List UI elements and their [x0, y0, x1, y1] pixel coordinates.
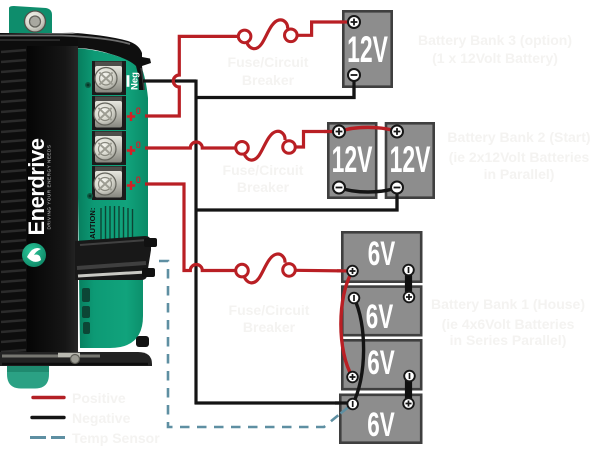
- charger mounting tab (top): [9, 6, 52, 33]
- terminal -: [348, 69, 360, 81]
- pcb connector slots (lower green): [82, 288, 90, 334]
- positive wire 2 (to parallel 12V bank), hops over bus: [145, 142, 236, 148]
- negative branch to battery bank 2: [195, 192, 398, 210]
- svg-text:Neg: Neg: [129, 72, 140, 90]
- positive wire tail over battery edge: [340, 20, 354, 23]
- batt3 terminal + (left): [347, 372, 358, 383]
- circuit breaker CB1 wave: [244, 254, 285, 283]
- charger black case body and top band: [0, 33, 78, 357]
- batt4 terminal + (right): [403, 398, 414, 409]
- batt4 terminal - (left): [347, 399, 358, 410]
- series link bar 3-4 (right): [405, 372, 412, 407]
- svg-text:6V: 6V: [368, 235, 396, 273]
- Enerdrive brand text (rotated): [24, 138, 52, 235]
- black parallel jumper (batt2- to batt4-): [353, 298, 364, 404]
- black parallel link (- to -): [339, 188, 397, 193]
- svg-text:Breaker: Breaker: [243, 319, 296, 335]
- svg-text:Battery Bank 1 (House): Battery Bank 1 (House): [431, 296, 585, 312]
- batt1 terminal - (right): [403, 265, 414, 276]
- terminal block 1 (Neg): [92, 61, 126, 95]
- charger bottom green foot: [7, 366, 49, 389]
- svg-text:Breaker: Breaker: [237, 179, 290, 195]
- terminal R+: [391, 126, 403, 138]
- positive wire 1 (to top 12V battery), hops over black wire: [145, 36, 238, 116]
- svg-text:6V: 6V: [367, 406, 395, 444]
- svg-text:Breaker: Breaker: [242, 72, 295, 88]
- circuit breaker CB3 left circle: [238, 30, 251, 43]
- terminal L-: [333, 182, 345, 194]
- legend positive wire: [33, 396, 64, 399]
- label - Neg: [127, 75, 130, 87]
- green bottom-right corner tab: [136, 336, 149, 347]
- pcb standoff holes: [85, 82, 91, 88]
- heatsink fins: [1, 50, 26, 352]
- legend temp sensor wire: [30, 436, 65, 439]
- svg-text:12V: 12V: [390, 138, 431, 180]
- positive wire 3 (to 6V bank), hops over bus: [145, 184, 236, 271]
- svg-text:12V: 12V: [347, 28, 388, 70]
- caution label on panel: [88, 208, 97, 245]
- svg-text:Fuse/Circuit: Fuse/Circuit: [228, 54, 309, 70]
- batt1 terminal + (left): [347, 266, 358, 277]
- terminal block 2 (+1): [92, 96, 126, 130]
- terminal block 3 (+2): [92, 131, 126, 165]
- circuit breaker CB1 left circle: [236, 264, 249, 277]
- battery 6V #4: [340, 395, 421, 444]
- case top-right band: [62, 32, 151, 90]
- positive wire tail over battery 1 edge: [337, 269, 353, 272]
- batt3 terminal - (right): [404, 371, 415, 382]
- positive wire 1 tail into battery: [297, 22, 354, 35]
- svg-text:CAUTION:: CAUTION:: [88, 208, 97, 245]
- svg-text:in Series Parallel): in Series Parallel): [450, 332, 567, 348]
- svg-text:in Parallel): in Parallel): [484, 166, 555, 182]
- terminal L+: [333, 126, 345, 138]
- cable clamp bar: [75, 236, 157, 280]
- negative bus (vertical): [194, 80, 197, 405]
- svg-text:(1 x 12Volt Battery): (1 x 12Volt Battery): [432, 50, 558, 66]
- negative wire tail over right battery edge: [395, 188, 398, 212]
- label +2: [127, 146, 135, 155]
- circuit breaker CB2 right circle: [283, 141, 296, 154]
- battery 12V (bank 3): [343, 11, 391, 86]
- negative wire tail over battery edge: [352, 78, 355, 99]
- case top highlight: [0, 36, 130, 45]
- svg-text:DRIVING YOUR ENERGY NEEDS: DRIVING YOUR ENERGY NEEDS: [47, 144, 52, 229]
- svg-text:Negative: Negative: [72, 410, 131, 426]
- circuit breaker CB2 wave: [244, 131, 285, 160]
- svg-text:Temp Sensor: Temp Sensor: [72, 430, 160, 446]
- battery 6V #1: [342, 232, 421, 281]
- svg-text:Fuse/Circuit: Fuse/Circuit: [223, 162, 304, 178]
- negative branch to battery bank 3 (top 12V): [195, 80, 355, 98]
- svg-text:6V: 6V: [367, 344, 395, 382]
- svg-text:6V: 6V: [366, 298, 394, 336]
- negative wire tail over battery 4 edge: [335, 401, 353, 404]
- svg-text:Battery Bank 3 (option): Battery Bank 3 (option): [418, 32, 572, 48]
- circuit breaker CB3 wave: [247, 20, 288, 49]
- positive wire 3 tail into 6V battery 1: [295, 269, 352, 273]
- circuit breaker CB1 right circle: [283, 264, 296, 277]
- terminal block 4 (+3): [92, 166, 126, 200]
- svg-text:12V: 12V: [332, 138, 373, 180]
- circuit breaker CB3 right circle: [285, 29, 298, 42]
- legend negative wire: [32, 416, 64, 419]
- battery 6V #2: [342, 287, 421, 337]
- charger green PCB panel: [76, 48, 148, 348]
- svg-text:(ie 4x6Volt Batteries: (ie 4x6Volt Batteries: [442, 316, 575, 332]
- case face shading: [27, 46, 78, 357]
- Enerdrive logo swirl: [22, 243, 46, 267]
- terminal R-: [391, 182, 403, 194]
- negative branch to battery bank 1 (6V bank): [195, 401, 353, 404]
- batt2 terminal - (left): [349, 293, 360, 304]
- svg-text:Positive: Positive: [72, 390, 126, 406]
- temp sensor cable (dashed): [159, 261, 350, 427]
- positive wire tail over left battery edge: [324, 130, 339, 133]
- svg-text:Battery Bank 2 (Start): Battery Bank 2 (Start): [447, 129, 590, 145]
- circuit breaker CB2 left circle: [236, 142, 249, 155]
- svg-text:Enerdrive: Enerdrive: [24, 138, 49, 235]
- positive wire 2 tail into left 12V battery: [295, 132, 339, 148]
- series link bar 1-2 (right): [405, 266, 412, 301]
- batt2 terminal + (right): [404, 292, 415, 303]
- label +1: [127, 112, 135, 121]
- terminal +: [348, 16, 360, 28]
- negative wire: charger Neg terminal to black bus: [143, 79, 196, 82]
- svg-text:Fuse/Circuit: Fuse/Circuit: [229, 302, 310, 318]
- label +3: [127, 181, 135, 190]
- battery 12V right (bank 2): [386, 123, 434, 197]
- temp sensor dash tail over battery 4 edge: [341, 406, 351, 414]
- charger bottom bar: [0, 352, 152, 366]
- battery 12V left (bank 2): [328, 123, 376, 197]
- svg-text:(ie 2x12Volt Batteries: (ie 2x12Volt Batteries: [449, 149, 590, 165]
- battery 6V #3: [342, 340, 421, 389]
- red parallel jumper (batt1+ to batt3+): [341, 271, 353, 377]
- red parallel link (+ to +): [339, 127, 397, 131]
